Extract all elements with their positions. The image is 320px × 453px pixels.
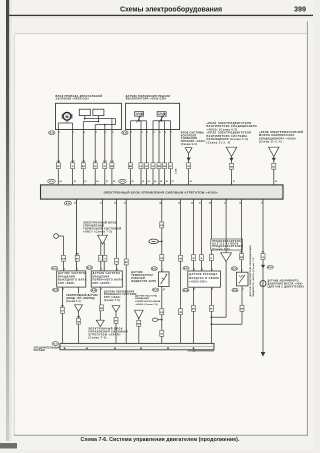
oval B-22 below sensor A [53, 288, 59, 292]
joint connector bar [60, 343, 214, 349]
wire labels throttle bundle [56, 161, 114, 169]
input shaft speed sensor B [91, 271, 122, 287]
svg-text:Схемы электрооборудования: Схемы электрооборудования [120, 5, 222, 13]
svg-text:48: 48 [209, 202, 211, 205]
airflow sensor assembly [188, 271, 221, 287]
ECU band (engine control unit) [41, 185, 284, 199]
oval B-28 below airflow sensor [183, 288, 189, 292]
svg-text:4: 4 [154, 131, 155, 134]
wire fuse triangle down and over [211, 262, 227, 319]
wire label pin32 [115, 258, 119, 264]
svg-text:2: 2 [202, 269, 203, 271]
oil pressure switch SW1 [260, 281, 266, 287]
coolant sensor vertical label [249, 245, 255, 297]
output shaft speed sensor A [57, 271, 86, 287]
svg-text:4: 4 [194, 288, 195, 291]
wire ECU pin32 to sensor B [116, 199, 118, 271]
svg-text:32: 32 [114, 203, 116, 205]
svg-text:ЖИДКОСТИ <4G93> (Схема 7-2): ЖИДКОСТИ <4G93> (Схема 7-2) [252, 257, 255, 296]
svg-text:41: 41 [74, 202, 76, 205]
oval B-31 joint connector [52, 342, 59, 346]
book spine shadow [6, 0, 9, 441]
wire label crank [114, 317, 118, 323]
pin ticks sensor B top [101, 269, 118, 271]
oval B-25 above ATF sensor [151, 267, 157, 271]
triangle T4 fuse [221, 253, 232, 262]
ATF temp sensor (thermistor) [159, 272, 170, 287]
wire oil switch to ground [262, 287, 264, 352]
svg-text:LG: LG [94, 166, 97, 168]
svg-text:WG: WG [114, 321, 118, 323]
wire label ATF low [160, 309, 164, 315]
wire labels pedal bundle [129, 163, 173, 169]
svg-text:RW: RW [157, 166, 160, 168]
svg-text:33: 33 [124, 203, 126, 205]
svg-text:16: 16 [239, 203, 241, 205]
svg-text:BW: BW [137, 324, 140, 326]
wire crank triangle to joint connector [115, 312, 117, 343]
svg-text:31: 31 [100, 203, 102, 205]
triangle T3 ABS [98, 235, 108, 244]
svg-text:1: 1 [242, 270, 243, 272]
connector oval B-06 between blocks [122, 131, 128, 135]
connector oval B-18 on ECU top [48, 179, 56, 183]
svg-text:BW: BW [129, 166, 132, 168]
wire airflow pin4 to joint connector [193, 287, 195, 343]
internal wiring of throttle block [58, 116, 115, 130]
pin ticks airflow top [194, 269, 214, 271]
oval B-21 above sensor A [52, 266, 58, 270]
oval B-27 above airflow sensor [183, 267, 189, 271]
capacitor tap on ATF wire [152, 318, 162, 321]
svg-text:2: 2 [243, 289, 244, 291]
svg-text:71: 71 [261, 203, 263, 205]
motor M1 [62, 112, 73, 120]
svg-text:WR: WR [240, 257, 244, 259]
wire label pin48 [209, 255, 213, 261]
svg-text:82: 82 [148, 181, 150, 183]
svg-text:84: 84 [154, 180, 156, 183]
svg-text:2: 2 [164, 288, 165, 290]
wire coolant sensor to junction [211, 286, 243, 325]
potentiometer P2 [157, 112, 166, 123]
svg-text:ЭЛЕКТРОННЫЙ БЛОК УПРАВЛЕНИЯ СИ: ЭЛЕКТРОННЫЙ БЛОК УПРАВЛЕНИЯ СИЛОВЫМ АГРЕ… [104, 191, 218, 195]
ground G1 [261, 352, 266, 357]
wire label compressor [272, 163, 276, 169]
pin ticks airflow bottom [194, 288, 214, 291]
wire oxygen triangle to joint connector [78, 311, 80, 343]
wire label airflow pin4 [192, 305, 196, 311]
wire label pin33 [124, 259, 128, 265]
svg-text:ДАТЧИК ПОЛОЖЕНИЯ ПЕДАЛИАКСЕЛЕР: ДАТЧИК ПОЛОЖЕНИЯ ПЕДАЛИАКСЕЛЕРАТОРА <4G9… [126, 95, 171, 101]
wire label pin45 [179, 255, 183, 261]
svg-text:YG: YG [262, 257, 265, 259]
wire fan relay to ECU [229, 156, 233, 184]
svg-text:54: 54 [60, 180, 62, 183]
svg-text:ДАТЧИК АВАРИЙНОГОДАВЛЕНИЯ МАСЛ: ДАТЧИК АВАРИЙНОГОДАВЛЕНИЯ МАСЛА <4D5>(ДЛ… [268, 280, 304, 289]
svg-text:51: 51 [85, 181, 87, 183]
wire label ATF lowest [160, 330, 164, 336]
svg-text:ДАТЧИК ТЕМПЕРАТУРЫ ОХЛАЖДАЮЩЕЙ: ДАТЧИК ТЕМПЕРАТУРЫ ОХЛАЖДАЮЩЕЙ [249, 245, 252, 297]
svg-text:55: 55 [113, 181, 115, 183]
wire ECU pin41 to speed sensor A [76, 199, 78, 271]
wire sensor A to joint connector [62, 287, 64, 343]
triangle T1 fan relay [226, 147, 236, 156]
pin tick sensor A bottom [63, 289, 65, 291]
svg-text:W: W [193, 258, 195, 260]
wire ECU pin71 to oil pressure switch [262, 199, 264, 281]
potentiometer P1 [135, 112, 144, 123]
pin row above ECU band [58, 180, 277, 185]
svg-text:22: 22 [275, 181, 277, 183]
wire ECU pin31 to ABS triangle [102, 199, 104, 236]
svg-text:85: 85 [160, 181, 162, 183]
svg-text:5: 5 [212, 289, 213, 291]
svg-text:GW: GW [62, 259, 66, 261]
svg-text:63: 63 [190, 181, 192, 183]
wire label sensor A low [61, 306, 65, 314]
header rule [9, 14, 313, 16]
junction dots on joint connector [64, 347, 195, 349]
pin tick coolant bottom [242, 289, 244, 291]
svg-text:80: 80 [132, 181, 134, 183]
svg-text:1: 1 [162, 270, 163, 272]
wire ECU pin16 to coolant temp sensor [241, 199, 243, 272]
wire bundle from pedal sensor to ECU [131, 130, 171, 185]
stub sensor A to oxygen note [78, 287, 80, 293]
wire sensor B to PTC triangle [99, 287, 101, 320]
svg-text:WB: WB [110, 166, 114, 168]
svg-text:5: 5 [105, 132, 106, 134]
wire label pin44 lower [160, 255, 164, 261]
throttle actuator block U1 [56, 103, 122, 129]
wire bundle from throttle block to ECU [58, 129, 112, 184]
wire label airflow pin5 [209, 305, 213, 311]
connector oval B-32 oil switch [267, 266, 273, 270]
svg-text:3: 3 [147, 132, 148, 134]
accel pedal position sensor U2 [126, 103, 180, 129]
triangle T5 oxygen [75, 305, 83, 312]
svg-text:1: 1 [73, 132, 74, 134]
round terminal to sensor A [54, 234, 64, 271]
triangle T6 powertrain [96, 320, 104, 326]
wires ABS triangle to sensor B [101, 242, 104, 271]
svg-text:5: 5 [160, 132, 161, 134]
svg-text:GO: GO [160, 258, 164, 260]
wire label pin16 [240, 251, 244, 259]
oval B-29 above coolant sensor [231, 267, 237, 271]
svg-text:M: M [66, 115, 69, 119]
pedal sensor internal stubs [131, 120, 171, 130]
svg-text:57: 57 [106, 181, 108, 183]
wire ECU pin12 to fuse triangle [225, 199, 227, 253]
svg-text:6: 6 [96, 132, 97, 134]
oval B-26 below ATF sensor [153, 288, 159, 292]
oval B-23 above sensor B [86, 266, 92, 270]
wire airflow pin5 to joint connector [210, 287, 212, 343]
triangle from emission unit [185, 148, 192, 154]
svg-text:3: 3 [63, 289, 64, 291]
wire label emission [187, 163, 191, 169]
wire label pin71 [261, 251, 265, 259]
svg-text:2: 2 [59, 132, 60, 134]
wire label fan relay [230, 163, 234, 169]
wire label oxygen [77, 316, 81, 324]
svg-text:399: 399 [294, 4, 306, 13]
svg-text:BG: BG [192, 309, 195, 311]
svg-text:6: 6 [165, 132, 166, 134]
svg-text:1: 1 [212, 269, 213, 271]
triangle T8 crank speed [135, 310, 144, 318]
driver IC box 1 [79, 109, 90, 115]
direction arrow on pin71 wire [261, 265, 265, 268]
svg-text:3: 3 [194, 269, 195, 271]
svg-text:47: 47 [199, 202, 201, 205]
pin numbers under blocks [59, 131, 172, 134]
wire crank speed to joint connector [138, 317, 140, 343]
svg-text:LW: LW [160, 312, 163, 314]
wire ECU pin47 to airflow sensor [201, 199, 203, 271]
wire ECU pin48 to airflow sensor [210, 199, 212, 271]
wire emission unit to ECU [187, 154, 191, 185]
pin tick ATF top [162, 270, 164, 272]
wire ATF sensor to joint connector [161, 287, 163, 344]
fuse note box [211, 239, 243, 250]
svg-text:1.25B: 1.25B [176, 168, 178, 174]
wire label pin44 upper [160, 222, 164, 228]
wire label pin45 low [179, 309, 183, 315]
connector oval B-20 under ECU [64, 201, 71, 205]
triangle T2 compressor relay [269, 147, 279, 156]
long wire ECU pin45 to joint connector [180, 199, 182, 344]
svg-text:2: 2 [117, 269, 118, 271]
svg-text:Схема 7-6. Система управления: Схема 7-6. Система управления двигателем… [81, 437, 240, 443]
svg-text:2: 2 [64, 269, 65, 271]
stub below joint connector [188, 350, 215, 352]
wire ECU pin44 to ATF temp sensor [161, 199, 163, 272]
wire ECU pin46 to airflow sensor [193, 199, 195, 271]
svg-text:44: 44 [159, 202, 161, 205]
svg-text:46: 46 [191, 202, 193, 205]
svg-text:YG: YG [152, 166, 155, 168]
svg-text:ДАТЧИК ЧАСТОТЫВРАЩЕНИЯКОЛЕНЧАТ: ДАТЧИК ЧАСТОТЫВРАЩЕНИЯКОЛЕНЧАТОГО ВАЛА<4… [135, 294, 160, 306]
connector oval B-19 on ECU top [119, 179, 127, 183]
pin tick ATF bottom [163, 288, 165, 290]
svg-text:1: 1 [131, 132, 132, 134]
triangle T7 crank position [112, 306, 120, 312]
svg-text:2: 2 [142, 132, 143, 134]
svg-text:45: 45 [178, 202, 180, 205]
wire labels ABS pair [98, 255, 107, 261]
wire label pin41 [75, 254, 79, 262]
svg-text:81: 81 [142, 181, 144, 183]
svg-text:GW: GW [163, 166, 167, 168]
wire label pin47 [200, 255, 204, 261]
oval B-30 below coolant sensor [232, 288, 238, 292]
pin tick coolant top [242, 270, 244, 272]
svg-text:86: 86 [166, 181, 168, 183]
coolant temp sensor (thermistor) [237, 272, 249, 286]
pin tick sensor B bottom [100, 289, 102, 291]
svg-text:4: 4 [84, 131, 85, 134]
wire label terminal branch [61, 255, 65, 261]
wire compressor relay to ECU [272, 156, 276, 184]
svg-text:3: 3 [112, 132, 113, 134]
pin row below ECU band [74, 199, 263, 205]
svg-text:7: 7 [171, 132, 172, 134]
svg-text:21: 21 [233, 181, 235, 183]
svg-text:0.85: 0.85 [240, 251, 244, 253]
wire label sensor B low [100, 305, 104, 311]
oval B-24 below sensor B [91, 289, 97, 293]
svg-text:1: 1 [77, 269, 78, 271]
svg-text:1: 1 [101, 269, 102, 271]
noise capacitor tap [149, 239, 163, 244]
svg-text:52: 52 [74, 181, 76, 183]
wire label crank speed [137, 320, 141, 326]
svg-text:58: 58 [96, 181, 98, 183]
pin ticks sensor A top [63, 269, 78, 271]
long wire ECU pin33 to joint connector [125, 199, 127, 344]
svg-text:87: 87 [172, 181, 174, 183]
svg-text:3: 3 [101, 289, 102, 291]
wire label coolant low [240, 305, 244, 311]
driver IC box 2 [93, 109, 104, 115]
connector oval B-05 under throttle block [49, 131, 55, 135]
wire label pin46 [192, 255, 196, 261]
